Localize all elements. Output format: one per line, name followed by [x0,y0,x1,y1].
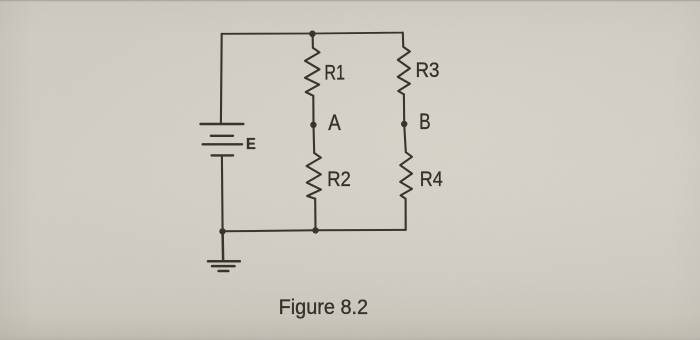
svg-text:A: A [328,110,341,135]
wire R1 to node A [312,96,314,125]
junction dot top [309,31,316,38]
wire left rail lower [221,156,224,232]
wire right rail upper [402,33,405,47]
svg-text:B: B [419,109,431,134]
battery E [201,124,244,155]
resistor R3 [398,47,410,95]
wire node B to R4 [404,124,406,152]
svg-text:R4: R4 [420,168,443,191]
wire top [222,33,403,34]
svg-text:R1: R1 [324,61,345,84]
junction dot bottom left [219,228,225,234]
resistor R4 [400,152,412,199]
resistor R2 [307,153,321,199]
wire R2 to bottom [314,199,316,231]
wire bottom [223,230,406,231]
wire node A to R2 [312,125,315,153]
wire R3 to node B [403,94,405,124]
junction dot bottom middle [312,227,318,233]
resistor R1 [305,48,320,96]
svg-text:Figure 8.2: Figure 8.2 [279,294,369,319]
node B [401,121,407,127]
ground [208,231,240,271]
wire left rail upper [220,34,223,124]
wire R4 to bottom [405,199,407,230]
svg-text:E: E [246,136,256,153]
node A [310,122,316,128]
svg-text:R3: R3 [416,59,440,82]
svg-text:R2: R2 [327,168,351,191]
wire middle upper [312,34,314,48]
